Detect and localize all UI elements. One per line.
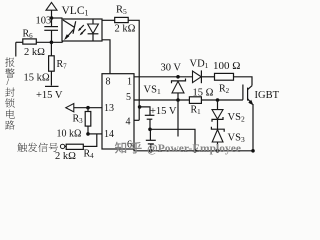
wire R6 to opto — [36, 41, 62, 43]
wire R1 to gate — [201, 99, 243, 101]
wire opto bottom-left to R6 line — [62, 41, 64, 42]
resistor R6 — [23, 39, 37, 44]
optocoupler output diode (right half) — [88, 19, 99, 41]
wire R4 to riser — [83, 145, 97, 147]
optocoupler photodiode (left half) — [63, 20, 76, 40]
diode VD1 — [193, 70, 202, 83]
+15V supply arrow top — [46, 2, 57, 26]
resistor R1 — [189, 97, 201, 104]
svg-text:@Power-Employee: @Power-Employee — [147, 143, 241, 155]
svg-text:100 Ω: 100 Ω — [213, 60, 240, 72]
node mid-rail drop — [193, 149, 197, 153]
+15V arrow (left pointing) — [66, 104, 74, 112]
svg-text:VS2: VS2 — [228, 112, 245, 124]
wire node B to R7 — [50, 42, 52, 56]
wire pin14 — [88, 133, 102, 135]
op-amp U1 IC box M57962 — [102, 74, 134, 149]
wire R5 right and down to +15 node — [128, 20, 139, 120]
svg-text:2 kΩ: 2 kΩ — [24, 47, 45, 58]
wire pin5 gate row — [134, 99, 189, 101]
svg-text:10 kΩ: 10 kΩ — [57, 128, 82, 139]
resistor R2 — [215, 73, 234, 80]
svg-text:+15 V: +15 V — [36, 90, 63, 101]
node B (cap/R7 junction) — [50, 41, 54, 45]
svg-text:VS1: VS1 — [144, 85, 161, 97]
wire VS1 lower stub — [177, 100, 179, 137]
node VS1 bottom — [176, 98, 180, 102]
node VS2 top — [216, 98, 220, 102]
node R3 bottom / pin14 — [86, 132, 90, 136]
wire R7 to +15V bar — [50, 71, 52, 85]
svg-text:VD1: VD1 — [190, 59, 209, 71]
watermark — [115, 142, 142, 154]
wire pin4 stub — [134, 119, 139, 121]
zener VS1 — [172, 79, 186, 101]
node VS1 top — [176, 75, 180, 79]
resistor R7 — [49, 56, 55, 71]
resistor R3 — [85, 112, 91, 127]
svg-text:2 kΩ: 2 kΩ — [115, 24, 136, 35]
capacitor 103 — [44, 27, 58, 43]
wire R2 to IGBT collector — [234, 77, 253, 86]
label alarm/block circuit (vertical) — [5, 57, 15, 129]
wire opto bottom-right to IC pin8 — [102, 40, 110, 74]
optocoupler U box VLC1 — [62, 19, 102, 41]
trigger terminal circle — [60, 144, 64, 148]
+15V terminal bar — [45, 85, 59, 87]
svg-text:R5: R5 — [116, 5, 127, 17]
svg-text:15 kΩ: 15 kΩ — [24, 73, 50, 84]
node +15 rail (pin4) — [138, 105, 142, 109]
wire opto right to R5 — [102, 19, 115, 21]
capacitor C1 — [145, 115, 155, 129]
capacitor C2 — [146, 129, 156, 151]
wire bottom rail — [134, 149, 253, 151]
svg-text:VLC1: VLC1 — [62, 5, 89, 18]
svg-text:103: 103 — [36, 16, 52, 27]
wire node A to optocoupler — [52, 17, 63, 19]
wire R3 bottom stub — [87, 126, 89, 134]
wire terminal to R4 — [65, 145, 66, 147]
node C1/C2 — [148, 128, 152, 132]
node emitter/rail — [251, 149, 255, 153]
svg-text:13: 13 — [104, 103, 114, 114]
node VS3 bottom — [216, 149, 220, 153]
label trigger signal — [17, 143, 58, 152]
svg-text:1: 1 — [127, 77, 132, 88]
resistor R5 — [115, 17, 129, 22]
wire pin1 row — [134, 76, 193, 78]
svg-text:IGBT: IGBT — [255, 90, 280, 101]
svg-text:8: 8 — [106, 77, 111, 88]
wire VD1 to R2 — [201, 76, 214, 78]
svg-text:4: 4 — [126, 117, 131, 128]
wire mid rail to right — [150, 129, 195, 151]
node R3 top — [86, 106, 90, 110]
wire left stub to alarm circuit — [15, 42, 17, 56]
svg-text:2 kΩ: 2 kΩ — [55, 151, 76, 162]
wire R3 top stub — [87, 108, 89, 112]
resistor R4 — [66, 144, 83, 149]
svg-text:14: 14 — [104, 129, 114, 140]
wire +15 node to cap column — [140, 107, 150, 115]
wire pin13 with +15V arrow — [74, 107, 102, 109]
wire R6 line — [16, 41, 23, 43]
node C2 bottom — [149, 149, 153, 153]
svg-text:5: 5 — [126, 92, 131, 103]
node A (arrow/cap/opto junction) — [50, 16, 54, 20]
zener VS2 — [212, 100, 223, 122]
optocoupler light arrows — [78, 25, 86, 35]
transistor IGBT — [243, 85, 254, 151]
zener VS3 — [211, 119, 224, 150]
svg-text:30 V: 30 V — [161, 63, 182, 74]
wire trigger riser — [96, 134, 98, 147]
